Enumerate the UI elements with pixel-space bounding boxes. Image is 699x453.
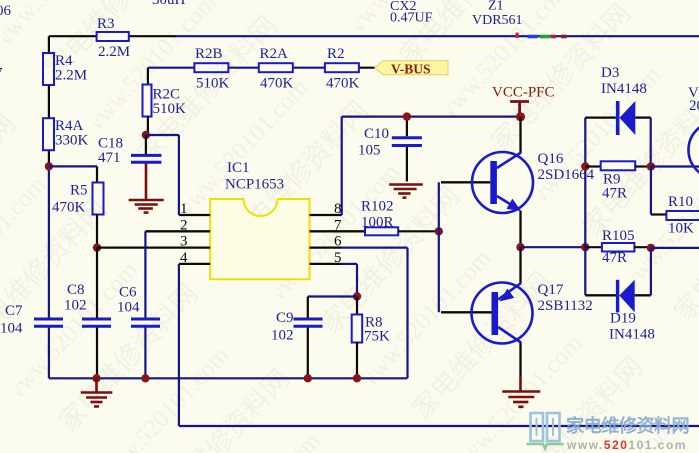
svg-text:102: 102 <box>271 328 294 344</box>
net color marks on rail <box>516 33 567 39</box>
resistor R9 <box>585 161 651 201</box>
ground (main bus) <box>81 378 113 406</box>
resistor R10 <box>651 194 699 237</box>
capacitor C10 <box>358 117 422 182</box>
wire left vertical (R4 chain) <box>48 36 50 378</box>
wire C9 net <box>308 297 357 319</box>
svg-text:家电维修资料网: 家电维修资料网 <box>566 415 689 436</box>
svg-text:R102: R102 <box>361 199 394 215</box>
wire pin5 to R8 <box>341 264 357 297</box>
svg-text:C10: C10 <box>364 126 389 142</box>
node emitter junction <box>516 243 524 251</box>
svg-text:D3: D3 <box>601 65 619 81</box>
svg-text:100R: 100R <box>361 215 394 231</box>
capacitor C7 <box>0 303 63 337</box>
svg-text:2SB1132: 2SB1132 <box>538 298 593 314</box>
node R9 left junction <box>581 162 589 170</box>
svg-text:8: 8 <box>334 201 342 217</box>
pin 8 stub <box>310 201 342 217</box>
wire pin4 down and bottom run <box>179 264 699 426</box>
svg-text:Z1: Z1 <box>488 0 504 14</box>
svg-text:C7: C7 <box>5 303 23 319</box>
capacitor C8 <box>64 248 111 379</box>
svg-text:47R: 47R <box>602 186 627 202</box>
net label V-BUS <box>375 61 448 77</box>
wire top rail <box>49 35 699 37</box>
svg-text:C8: C8 <box>67 282 85 298</box>
svg-text:5: 5 <box>334 250 342 266</box>
resistor R4A <box>43 118 89 150</box>
capacitor CX2 label <box>390 0 433 26</box>
svg-text:R3: R3 <box>97 16 115 32</box>
node C10/rail junction <box>403 112 411 120</box>
wire emitter node to D3/R105 branch <box>521 246 586 248</box>
svg-text:IN4148: IN4148 <box>601 81 647 97</box>
svg-text:3: 3 <box>180 234 188 250</box>
node branch left junction <box>581 243 589 251</box>
wire ground bus <box>49 377 408 379</box>
svg-text:IC1: IC1 <box>227 160 250 176</box>
node R9 right junction <box>647 162 655 170</box>
svg-text:C6: C6 <box>119 285 137 301</box>
svg-text:510K: 510K <box>196 76 230 92</box>
logo book icon <box>527 413 564 449</box>
svg-text:20: 20 <box>689 98 699 114</box>
node C6/bus junction <box>141 374 149 382</box>
svg-text:2.2M: 2.2M <box>55 68 87 84</box>
svg-text:VCC-PFC: VCC-PFC <box>492 85 555 101</box>
svg-text:Q17: Q17 <box>538 282 564 298</box>
svg-text:470K: 470K <box>326 76 360 92</box>
svg-text:IN4148: IN4148 <box>609 327 655 343</box>
svg-text:VDR561: VDR561 <box>472 13 523 28</box>
IC U1 NCP1653 body <box>210 160 309 279</box>
svg-text:R105: R105 <box>602 228 635 244</box>
capacitor C18 <box>98 135 161 166</box>
power symbol VCC-PFC <box>492 85 555 115</box>
pin 1 stub <box>179 201 210 217</box>
pin 6 stub <box>310 234 343 250</box>
wire pin8 riser and VCC rail <box>342 117 521 215</box>
svg-text:V-BUS: V-BUS <box>391 62 431 77</box>
ground (C18) <box>129 164 164 213</box>
wire R2 row <box>148 68 375 85</box>
capacitor C9 <box>271 310 323 378</box>
svg-text:105: 105 <box>358 143 381 159</box>
svg-text:470K: 470K <box>52 200 86 216</box>
node R5/pin3/C8 junction <box>93 243 101 251</box>
pin 7 stub <box>310 217 366 233</box>
svg-text:R2: R2 <box>327 46 345 62</box>
svg-text:104: 104 <box>117 300 140 316</box>
svg-text:330K: 330K <box>55 133 89 149</box>
transistor Q17 2SB1132 <box>441 247 593 376</box>
svg-text:2.2M: 2.2M <box>98 44 130 60</box>
resistor R2 <box>325 46 360 92</box>
resistor R5 <box>52 166 104 247</box>
resistor R105 <box>585 228 651 266</box>
node C9/bus junction <box>304 374 312 382</box>
resistor R2B <box>194 46 229 92</box>
svg-text:R5: R5 <box>70 183 88 199</box>
varistor Z1 label <box>472 0 523 28</box>
svg-text:470K: 470K <box>260 76 294 92</box>
wire R105 node to right edge <box>651 247 699 249</box>
transistor (right edge, partial) <box>688 85 699 179</box>
svg-text:104: 104 <box>0 321 23 337</box>
svg-text:06: 06 <box>0 3 12 19</box>
svg-text:2: 2 <box>180 217 188 233</box>
svg-text:471: 471 <box>98 150 121 166</box>
node pin5/R8/C9 junction <box>353 292 361 300</box>
diode D19 IN4148 <box>585 248 655 343</box>
node R8/bus junction <box>353 374 361 382</box>
wire base net <box>438 182 440 312</box>
svg-text:R2B: R2B <box>195 46 223 62</box>
wire R9 node down to R10 <box>650 167 652 215</box>
resistor R4 <box>43 53 87 85</box>
wire pin6 to ground bus <box>341 248 408 379</box>
node C8/bus junction <box>92 374 100 382</box>
node R102/base junction <box>435 227 443 235</box>
svg-text:NCP1653: NCP1653 <box>225 177 284 193</box>
wire pin2 to C6 <box>144 231 146 378</box>
svg-text:6: 6 <box>334 234 342 250</box>
node VCC junction <box>516 112 525 121</box>
svg-text:Q16: Q16 <box>538 151 564 167</box>
svg-text:510K: 510K <box>153 101 187 117</box>
svg-text:47R: 47R <box>602 250 627 266</box>
resistor R2C <box>143 85 187 136</box>
svg-text:1: 1 <box>180 201 188 217</box>
diode D3 IN4148 <box>585 65 650 167</box>
svg-text:www.520101.com: www.520101.com <box>566 438 687 452</box>
svg-text:30uH: 30uH <box>152 0 186 8</box>
wire R9 node to right edge <box>651 165 699 167</box>
resistor R102 <box>361 199 439 236</box>
svg-text:C9: C9 <box>276 310 294 326</box>
node R105 right junction <box>647 244 655 252</box>
pin 4 stub <box>179 250 210 266</box>
wire junction to R5 <box>49 165 97 167</box>
wire junction to pin1 riser <box>146 135 179 215</box>
resistor R2A <box>259 46 294 92</box>
pin 2 stub <box>145 217 210 233</box>
pin 5 stub <box>310 250 342 266</box>
svg-text:0.47UF: 0.47UF <box>390 11 433 26</box>
svg-text:4: 4 <box>180 250 188 266</box>
svg-text:7: 7 <box>334 217 342 233</box>
transistor Q16 2SD1664 <box>441 117 595 247</box>
resistor R8 <box>352 297 390 379</box>
pin 3 stub <box>97 234 210 250</box>
svg-text:D19: D19 <box>610 311 636 327</box>
svg-text:R2A: R2A <box>260 46 289 62</box>
svg-text:10K: 10K <box>668 221 694 237</box>
node R4A/R5/C7 junction <box>45 162 53 170</box>
svg-text:R10: R10 <box>668 194 693 210</box>
capacitor C6 <box>117 285 160 327</box>
ground (C10) <box>389 185 423 198</box>
svg-text:102: 102 <box>64 298 87 314</box>
ground (Q17 collector) <box>502 376 540 407</box>
wire left branch vertical <box>584 118 586 296</box>
node R2C/C18/pin1 junction <box>142 131 150 139</box>
resistor R3 <box>97 16 130 60</box>
svg-text:75K: 75K <box>364 329 390 345</box>
